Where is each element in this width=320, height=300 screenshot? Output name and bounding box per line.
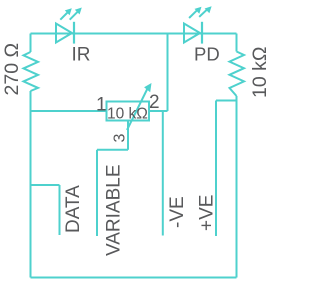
- PD emission arrow 1: [189, 7, 201, 18]
- wire pot pin3 stem: [127, 121, 129, 150]
- svg-text:IR: IR: [72, 45, 91, 66]
- svg-text:DATA: DATA: [63, 185, 84, 233]
- IR emission arrow 2: [70, 8, 82, 20]
- wire -VE drop: [162, 111, 164, 236]
- svg-text:10 kΩ: 10 kΩ: [107, 105, 148, 122]
- wire DATA drop: [59, 185, 61, 235]
- IR emission arrow 1: [60, 8, 72, 20]
- wire right rail lower: [236, 96, 238, 278]
- potentiometer RV1 body: [107, 102, 150, 121]
- potentiometer wiper arrow shaft: [127, 89, 148, 131]
- LED D2 PD cathode bar: [201, 22, 203, 44]
- PD emission arrow 2: [199, 6, 211, 17]
- wire bottom rail: [31, 277, 237, 279]
- wire DATA branch: [31, 184, 60, 186]
- wire pin3 horizontal: [97, 149, 128, 151]
- resistor R1 270Ω zigzag: [24, 52, 39, 91]
- svg-text:2: 2: [149, 92, 160, 113]
- svg-text:PD: PD: [194, 44, 220, 65]
- wire VARIABLE drop: [96, 150, 98, 236]
- wire left rail upper: [30, 34, 32, 53]
- wire pot pin2: [149, 110, 168, 112]
- wire +VE drop: [215, 101, 217, 237]
- svg-text:3: 3: [112, 134, 129, 143]
- svg-text:270 Ω: 270 Ω: [1, 43, 23, 96]
- svg-text:-VE: -VE: [167, 196, 188, 228]
- svg-text:VARIABLE: VARIABLE: [104, 164, 125, 256]
- resistor R2 10kΩ zigzag: [230, 52, 245, 97]
- LED D1 IR cathode bar: [73, 22, 75, 44]
- wire +VE branch: [216, 100, 237, 102]
- wire right rail upper: [236, 34, 238, 52]
- wire pot pin1: [31, 110, 107, 112]
- wire pin2 riser: [167, 34, 169, 112]
- wire left rail lower: [30, 91, 32, 278]
- potentiometer wiper arrowhead: [144, 83, 151, 92]
- wire top rail: [31, 33, 237, 35]
- svg-text:+VE: +VE: [197, 195, 218, 231]
- svg-text:1: 1: [96, 95, 107, 116]
- svg-text:10 kΩ: 10 kΩ: [249, 47, 267, 98]
- LED D2 PD triangle: [184, 24, 200, 43]
- LED D1 IR triangle: [56, 24, 72, 43]
